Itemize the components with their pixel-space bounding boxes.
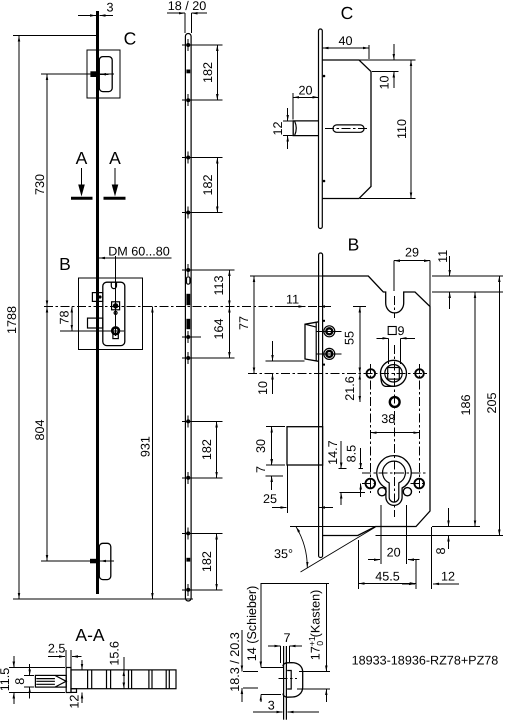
- top reference line: [260, 583, 328, 585]
- dim 8 right: [448, 508, 450, 527]
- svg-text:730: 730: [33, 174, 47, 195]
- svg-text:182: 182: [201, 62, 215, 83]
- svg-text:18.3 / 20.3: 18.3 / 20.3: [228, 632, 242, 692]
- dim 12 A-A: [81, 660, 83, 670]
- svg-text:182: 182: [200, 551, 214, 572]
- dim 10 latch: [272, 341, 274, 361]
- follower side view: [112, 302, 120, 310]
- rail joints: [87, 670, 89, 689]
- section plane bar right: [104, 197, 126, 200]
- dim 804: [46, 307, 48, 562]
- slot filled upper: [186, 294, 190, 305]
- dim 182 second: [216, 158, 218, 213]
- dim 182 fourth: [216, 533, 218, 589]
- svg-text:30: 30: [254, 439, 268, 453]
- centerline bottom latch: [41, 560, 114, 562]
- detail B box: [79, 278, 143, 350]
- dim 1788 extension bottom: [13, 598, 193, 600]
- section arrow right: [114, 168, 116, 185]
- dim 113: [228, 270, 230, 307]
- DM arrow: [99, 257, 172, 259]
- dim 18.3/20.3: [241, 630, 243, 672]
- cylinder inner profile: [383, 461, 406, 502]
- svg-text:DM 60...80: DM 60...80: [108, 245, 170, 259]
- small hole left: [378, 488, 386, 496]
- dim 1788 extension top: [13, 35, 96, 37]
- latch dot: [98, 295, 101, 298]
- svg-text:8.5: 8.5: [345, 445, 359, 463]
- follower hole right: [415, 369, 424, 378]
- slot outline: [187, 277, 190, 284]
- svg-text:182: 182: [200, 439, 214, 460]
- deadbolt side view: [88, 318, 103, 328]
- svg-text:3: 3: [268, 699, 275, 713]
- svg-text:12: 12: [271, 121, 285, 135]
- svg-text:B: B: [59, 254, 71, 274]
- svg-text:C: C: [341, 3, 354, 23]
- svg-text:15.6: 15.6: [107, 641, 121, 666]
- hole below follower: [390, 397, 400, 407]
- slot filled lower: [186, 319, 190, 329]
- slot C: [333, 125, 364, 132]
- follower centerline vertical: [394, 296, 396, 318]
- svg-text:25: 25: [263, 492, 277, 506]
- dim 11.5: [13, 656, 15, 668]
- dim 78: [71, 307, 73, 331]
- dim 110: [410, 60, 412, 199]
- plate cross-section: [66, 668, 71, 693]
- main rail edge view: [96, 11, 99, 594]
- svg-text:21.6: 21.6: [343, 376, 357, 401]
- screwline right vertical: [418, 364, 420, 493]
- case B outline: [323, 276, 430, 536]
- svg-text:7: 7: [283, 631, 290, 645]
- bottom extension piece: [99, 543, 111, 579]
- svg-text:20: 20: [298, 84, 312, 98]
- svg-text:55: 55: [343, 331, 357, 345]
- dim 164: [228, 307, 230, 359]
- svg-text:14.7: 14.7: [326, 440, 340, 465]
- svg-text:1788: 1788: [5, 306, 19, 334]
- rail cross-section: [71, 670, 176, 689]
- svg-text:40: 40: [338, 34, 352, 48]
- rail lip: [71, 689, 77, 693]
- cylinder outer profile: [377, 456, 411, 506]
- faceplate B: [319, 253, 323, 558]
- dim 7 deadbolt: [271, 450, 273, 465]
- latch side view: [92, 293, 102, 302]
- cylinder side view: [112, 327, 119, 334]
- svg-text:804: 804: [33, 419, 47, 440]
- svg-text:A-A: A-A: [75, 625, 105, 645]
- svg-text:A: A: [109, 148, 121, 168]
- cylinder flank hole left: [366, 479, 376, 489]
- cylinder flank hole right: [414, 479, 424, 489]
- plate vertical: [283, 646, 285, 720]
- dim 182 third: [216, 421, 218, 477]
- dim 17 Kasten: [325, 584, 327, 672]
- screw post lower: [324, 348, 335, 359]
- dim 55: [359, 307, 361, 374]
- svg-text:18933-18936-RZ78+PZ78: 18933-18936-RZ78+PZ78: [352, 654, 499, 668]
- small hole right: [403, 488, 411, 496]
- bolt C: [293, 121, 318, 136]
- svg-text:11: 11: [286, 293, 299, 307]
- follower vertical centerline left view: [115, 256, 117, 336]
- small hole side view: [114, 311, 117, 314]
- svg-text:35°: 35°: [274, 547, 293, 561]
- dim 77: [253, 276, 255, 374]
- latch bottom extension: [266, 360, 305, 362]
- follower centerline horizontal: [248, 373, 428, 375]
- cylinder hole flank centerline left: [362, 482, 378, 484]
- svg-text:113: 113: [212, 275, 226, 295]
- svg-text:78: 78: [58, 310, 72, 324]
- detail C box: [87, 50, 120, 98]
- extension lines strip: [182, 44, 223, 46]
- follower inner: [385, 365, 402, 382]
- svg-text:186: 186: [459, 394, 473, 415]
- cylinder centerline horizontal: [362, 472, 427, 474]
- svg-text:12: 12: [68, 695, 82, 709]
- centerline cylinder left view: [60, 330, 124, 332]
- centerline follower: [44, 306, 323, 308]
- edge mark lower: [186, 558, 190, 562]
- slot centerline: [325, 128, 369, 130]
- cylinder hole flank centerline right: [411, 482, 427, 484]
- dim 8 latch: [29, 664, 31, 675]
- top latch mark: [90, 71, 97, 77]
- top latch arrow: [100, 73, 109, 75]
- svg-text:17+10 (Kasten): 17+10 (Kasten): [307, 590, 325, 661]
- edge mark upper: [186, 70, 190, 74]
- svg-text:11: 11: [436, 250, 450, 263]
- faceplate C: [319, 29, 323, 229]
- follower hole left: [367, 369, 376, 378]
- case C outline: [322, 60, 371, 199]
- case mark lower: [323, 364, 325, 366]
- svg-text:9: 9: [397, 324, 404, 338]
- svg-text:10: 10: [256, 381, 270, 395]
- label square 9: [388, 327, 396, 335]
- svg-text:164: 164: [212, 318, 226, 339]
- svg-text:110: 110: [395, 119, 409, 139]
- case mark upper: [323, 320, 325, 322]
- latch cross-section: [35, 675, 66, 687]
- hole dot bottom: [323, 180, 326, 183]
- dim 182 first: [216, 45, 218, 100]
- svg-text:205: 205: [485, 392, 499, 413]
- dim 931: [151, 307, 153, 600]
- dim 21.6: [359, 374, 361, 403]
- svg-text:45.5: 45.5: [375, 570, 400, 584]
- dim 186: [474, 292, 476, 527]
- 35 degree horizontal ref: [290, 526, 376, 528]
- dim 14 Schieber: [260, 584, 262, 668]
- screwline left vertical: [370, 364, 372, 493]
- dim 730: [46, 74, 48, 307]
- svg-text:38: 38: [381, 412, 395, 426]
- slider cap profile: [283, 663, 303, 698]
- dim 1788: [18, 36, 20, 600]
- svg-text:3: 3: [106, 1, 113, 15]
- follower outer: [381, 360, 407, 386]
- svg-text:931: 931: [138, 436, 152, 457]
- screw holes: [186, 43, 190, 47]
- lock case side view: [103, 282, 125, 345]
- svg-text:8: 8: [434, 547, 448, 554]
- top extension piece: [99, 57, 112, 92]
- screw post upper: [324, 326, 335, 337]
- svg-text:8: 8: [13, 678, 27, 685]
- svg-text:14 (Schieber): 14 (Schieber): [245, 586, 259, 662]
- follower square: [388, 368, 400, 380]
- dim 30: [271, 427, 273, 465]
- svg-text:12: 12: [441, 570, 455, 584]
- svg-text:18 / 20: 18 / 20: [168, 0, 207, 13]
- 35 degree arc: [296, 527, 307, 568]
- svg-text:29: 29: [405, 246, 419, 260]
- svg-text:B: B: [348, 235, 360, 255]
- section plane bar left: [71, 197, 93, 200]
- bottom latch arrow: [100, 560, 109, 562]
- svg-text:C: C: [124, 29, 137, 49]
- svg-text:10: 10: [378, 75, 392, 89]
- deadbolt B: [287, 427, 323, 465]
- svg-text:11.5: 11.5: [0, 668, 12, 692]
- svg-text:2.5: 2.5: [48, 642, 66, 656]
- svg-text:7: 7: [254, 466, 268, 473]
- svg-text:20: 20: [387, 546, 401, 560]
- svg-text:A: A: [76, 148, 88, 168]
- svg-text:77: 77: [237, 316, 251, 330]
- centerline top latch: [41, 73, 114, 75]
- latch B: [305, 322, 319, 362]
- section arrow left: [81, 168, 83, 185]
- bottom latch mark: [90, 559, 98, 564]
- 35 degree line: [301, 527, 376, 572]
- case notch side view: [111, 282, 116, 288]
- svg-text:182: 182: [201, 174, 215, 195]
- dim 205: [498, 276, 500, 536]
- faceplate front view: [185, 34, 191, 602]
- hole dot top: [323, 75, 326, 78]
